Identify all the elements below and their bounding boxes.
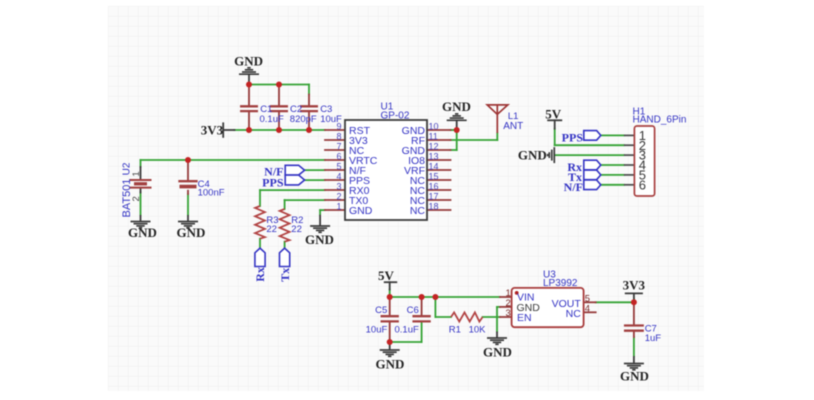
svg-text:3: 3: [336, 181, 341, 191]
svg-text:LP3992: LP3992: [543, 278, 578, 289]
svg-text:100nF: 100nF: [198, 188, 225, 199]
svg-text:3V3: 3V3: [201, 123, 224, 138]
svg-text:GND: GND: [177, 225, 206, 240]
svg-text:16: 16: [429, 181, 439, 191]
svg-text:GND: GND: [128, 225, 157, 240]
svg-text:2: 2: [336, 191, 341, 201]
svg-text:GND: GND: [483, 344, 512, 359]
svg-text:GND: GND: [518, 147, 547, 162]
svg-text:0.1uF: 0.1uF: [260, 114, 284, 125]
svg-text:6: 6: [639, 177, 646, 192]
svg-text:GND: GND: [234, 54, 263, 69]
svg-text:22: 22: [266, 224, 277, 235]
svg-text:HAND_6Pin: HAND_6Pin: [633, 115, 687, 126]
svg-text:1uF: 1uF: [645, 333, 662, 344]
svg-text:GND: GND: [620, 369, 649, 384]
svg-text:1: 1: [131, 171, 142, 176]
svg-text:7: 7: [336, 141, 341, 151]
svg-text:820pF: 820pF: [290, 114, 317, 125]
svg-text:GND: GND: [349, 205, 373, 217]
svg-text:PPS: PPS: [262, 175, 284, 189]
svg-text:PPS: PPS: [562, 131, 584, 145]
svg-text:22: 22: [291, 224, 302, 235]
svg-text:17: 17: [429, 191, 439, 201]
svg-text:11: 11: [429, 131, 438, 141]
svg-text:18: 18: [429, 201, 439, 211]
svg-text:R1: R1: [449, 325, 461, 336]
svg-text:NC: NC: [410, 205, 426, 217]
svg-text:13: 13: [429, 151, 439, 161]
svg-text:12: 12: [429, 141, 439, 151]
svg-text:Rx: Rx: [253, 267, 267, 282]
svg-text:15: 15: [429, 171, 439, 181]
svg-text:10: 10: [429, 121, 439, 131]
svg-text:C5: C5: [375, 305, 387, 316]
svg-text:4: 4: [585, 304, 590, 315]
svg-text:Tx: Tx: [278, 268, 292, 282]
svg-text:N/F: N/F: [564, 180, 583, 194]
svg-text:GP-02: GP-02: [381, 111, 410, 122]
svg-text:5V: 5V: [545, 106, 562, 121]
svg-text:3: 3: [506, 308, 511, 319]
svg-text:5: 5: [336, 161, 341, 171]
svg-text:5V: 5V: [378, 268, 395, 283]
svg-text:NC: NC: [566, 308, 582, 320]
svg-text:10uF: 10uF: [320, 114, 342, 125]
svg-text:4: 4: [336, 171, 341, 181]
svg-text:L1: L1: [508, 111, 519, 122]
svg-text:3V3: 3V3: [623, 277, 646, 292]
svg-text:GND: GND: [442, 99, 471, 114]
svg-text:1: 1: [336, 201, 341, 211]
svg-text:2: 2: [131, 196, 142, 201]
svg-text:GND: GND: [376, 356, 405, 371]
svg-text:ANT: ANT: [503, 121, 523, 132]
svg-text:10K: 10K: [469, 325, 487, 336]
svg-text:C6: C6: [407, 305, 419, 316]
svg-text:6: 6: [336, 151, 341, 161]
svg-text:10uF: 10uF: [366, 325, 388, 336]
svg-text:14: 14: [429, 161, 439, 171]
svg-text:GND: GND: [517, 302, 541, 314]
svg-text:GND: GND: [305, 232, 334, 247]
svg-text:0.1uF: 0.1uF: [395, 325, 419, 336]
svg-text:8: 8: [336, 131, 341, 141]
